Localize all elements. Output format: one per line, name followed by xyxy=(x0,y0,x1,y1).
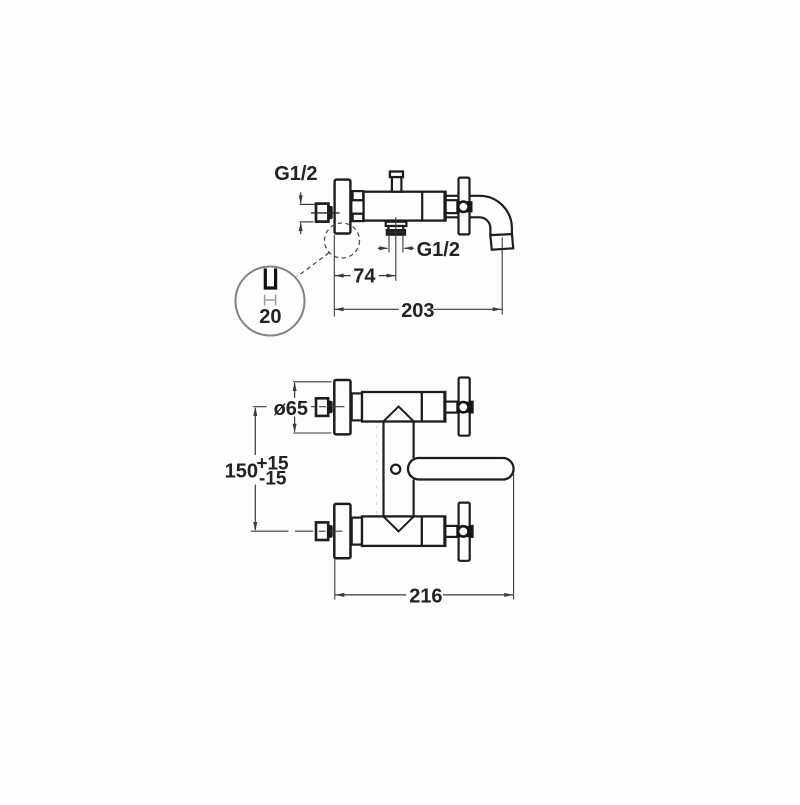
upper body/cap divider xyxy=(421,392,423,422)
mounting nut bottom band xyxy=(353,214,364,221)
outlet G1/2 arrow right (points left) xyxy=(403,246,414,250)
lower tee chamfer xyxy=(384,517,414,532)
body/valve-cap divider line xyxy=(421,192,423,221)
valve cap thick right edge xyxy=(443,192,446,220)
dimension 150 line lower xyxy=(253,485,257,532)
upper connector collar xyxy=(329,401,333,414)
upper inlet connector xyxy=(316,398,328,416)
mixer body (side view) xyxy=(364,192,446,221)
connecting column right line upper part xyxy=(413,421,415,458)
upper tee chamfer xyxy=(384,407,414,422)
svg-text:G1/2: G1/2 xyxy=(274,163,317,185)
lower handle hub boss xyxy=(456,526,472,537)
wall escutcheon plate (side view) xyxy=(335,180,351,234)
diverter stub stem xyxy=(392,177,402,192)
spout end joint line xyxy=(490,234,512,235)
dimension 216 extension right xyxy=(513,473,515,599)
dimension line 74 xyxy=(334,274,395,278)
svg-text:216: 216 xyxy=(409,585,442,607)
extension tick top of connector xyxy=(300,203,315,205)
upper cross handle bar xyxy=(459,378,470,436)
shower outlet band 3 xyxy=(387,230,405,234)
centerline through inlet connector xyxy=(311,212,340,214)
dimension G1/2 arrow upper (points down) xyxy=(299,192,303,204)
connecting column right line lower part xyxy=(413,480,415,517)
lower handle stem xyxy=(446,526,459,537)
dimension line 216 xyxy=(335,593,513,597)
upper cap thick right edge xyxy=(443,393,446,422)
dimension line 203 xyxy=(334,307,501,311)
shower outlet band 1 xyxy=(386,222,407,226)
handle hub circle xyxy=(457,200,470,213)
spout end cap xyxy=(490,234,513,250)
dimension ø65 arrow up xyxy=(293,382,297,398)
lower valve body xyxy=(362,516,445,546)
detail circle xyxy=(236,267,305,336)
lower handle hub circle xyxy=(457,525,470,538)
column screw hole xyxy=(391,465,400,474)
left extension line (wall face) xyxy=(333,235,335,317)
shower outlet band 2 xyxy=(388,226,403,230)
dimension G1/2 arrow lower (points up) xyxy=(299,222,303,234)
outlet G1/2 arrow left (points right) xyxy=(378,246,389,250)
svg-text:20: 20 xyxy=(259,306,281,328)
extension tick bottom of connector xyxy=(300,221,314,223)
lower cross handle bar xyxy=(459,503,470,561)
upper handle hub boss xyxy=(456,402,472,413)
lower connector collar xyxy=(329,525,333,538)
upper mounting nut xyxy=(352,393,362,420)
diverter stub cap xyxy=(390,172,403,178)
upper valve body xyxy=(362,392,445,422)
lower handle arm stub xyxy=(470,526,473,537)
handle hub black boss xyxy=(456,201,472,212)
outlet extension line left xyxy=(388,235,390,253)
lower cap thick right edge xyxy=(443,517,446,546)
upper escutcheon plate xyxy=(334,380,350,434)
H mark xyxy=(265,295,276,306)
dimension ø65 extension top xyxy=(293,381,331,383)
dimension ø65 arrow down xyxy=(293,417,297,434)
handle stem (side view) xyxy=(446,200,459,213)
inlet connector collar xyxy=(329,206,333,219)
connecting column left line xyxy=(382,421,384,516)
lower inlet connector xyxy=(316,522,328,540)
svg-text:150: 150 xyxy=(225,460,258,482)
upper inlet centerline xyxy=(253,406,345,408)
spout tube straight section xyxy=(447,196,480,218)
svg-text:G1/2: G1/2 xyxy=(417,239,460,261)
svg-text:74: 74 xyxy=(353,266,376,288)
spout bend outer xyxy=(480,196,512,235)
outlet centerline xyxy=(395,217,397,281)
svg-text:203: 203 xyxy=(401,300,434,322)
lower escutcheon plate xyxy=(334,504,350,558)
faint construction dashed line xyxy=(375,426,377,514)
svg-text:-15: -15 xyxy=(259,468,287,489)
dimension 150 line upper xyxy=(253,407,257,455)
dimension ø65 extension bottom xyxy=(293,432,331,434)
svg-text:ø65: ø65 xyxy=(274,398,308,420)
spout centerline / right extension xyxy=(501,237,503,314)
lower mounting nut xyxy=(352,518,362,545)
lower inlet centerline xyxy=(251,530,343,532)
upper handle hub circle xyxy=(457,401,470,414)
spout bend inner xyxy=(480,217,491,235)
upper handle stem xyxy=(446,402,459,413)
mounting nut top band (side view) xyxy=(353,191,364,200)
cross handle vertical bar (side view) xyxy=(459,178,470,235)
detail reference dashed circle on plate xyxy=(325,223,360,258)
lower body/cap divider xyxy=(421,516,423,546)
dimension 216 extension left xyxy=(334,559,336,599)
outlet extension line right xyxy=(402,235,404,253)
upper handle arm stub xyxy=(470,402,473,413)
detail leader dashed line xyxy=(297,253,329,277)
plate section U profile xyxy=(265,268,275,288)
inlet connector (side view) xyxy=(316,204,328,222)
spout (plan view, stadium) xyxy=(408,458,514,480)
mounting nut middle band xyxy=(351,200,364,213)
